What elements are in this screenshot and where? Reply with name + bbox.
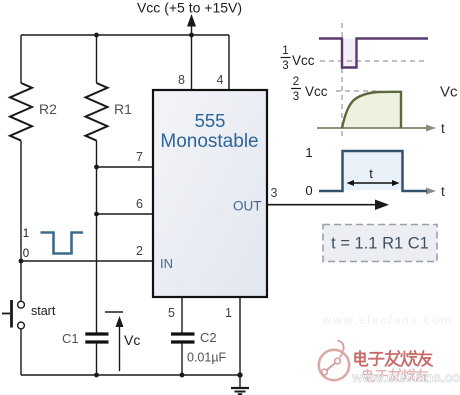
junction node C1/bottom rail	[94, 373, 99, 378]
capacitor C2	[171, 332, 195, 335]
svg-text:C1: C1	[62, 331, 79, 346]
svg-text:2: 2	[136, 244, 143, 258]
svg-text:1: 1	[305, 145, 312, 160]
watermark logo circle	[319, 341, 349, 381]
wire left rail lower	[20, 329, 22, 375]
wire pin5	[181, 297, 183, 333]
wire pin8	[191, 35, 193, 90]
junction dot top rail Vcc	[189, 33, 194, 38]
svg-text:555: 555	[195, 110, 226, 131]
dashed 2/3 Vcc level	[336, 90, 376, 92]
waveform Vc (olive) fill	[342, 92, 401, 128]
Vcc arrow	[191, 24, 193, 35]
svg-text:Vc: Vc	[440, 84, 458, 101]
wire left rail middle	[20, 141, 22, 301]
wire R1 lower	[96, 141, 98, 333]
waveform OUT axis arrow	[403, 190, 428, 192]
svg-text:2: 2	[293, 76, 299, 88]
resistor R2	[10, 83, 32, 141]
svg-text:Vcc: Vcc	[305, 84, 328, 99]
switch start	[10, 300, 13, 328]
svg-text:1: 1	[23, 228, 29, 240]
capacitor C1	[85, 332, 108, 335]
dashed vertical timing line	[341, 23, 343, 138]
wire pin6	[97, 213, 154, 215]
svg-text:0: 0	[305, 183, 312, 198]
svg-text:www.elecfans.com: www.elecfans.com	[321, 313, 453, 327]
svg-text:Vcc (+5 to +15V): Vcc (+5 to +15V)	[137, 0, 242, 16]
svg-text:8: 8	[178, 73, 185, 87]
wire pin1	[239, 297, 241, 375]
svg-text:OUT: OUT	[233, 199, 262, 214]
svg-text:Vcc: Vcc	[292, 53, 315, 68]
wire top rail	[21, 34, 229, 36]
svg-text:0.01µF: 0.01µF	[187, 351, 227, 365]
waveform OUT (blue) fill	[344, 152, 402, 190]
svg-text:start: start	[31, 304, 56, 318]
wire R1 upper	[96, 35, 98, 83]
watermark overlay 电子发烧友 small	[364, 369, 428, 381]
svg-text:R1: R1	[114, 101, 132, 117]
dashed 1/3 Vcc level	[320, 60, 428, 62]
svg-text:t: t	[441, 121, 445, 136]
wire bottom rail	[21, 374, 240, 376]
svg-text:R2: R2	[39, 101, 57, 117]
svg-text:3: 3	[271, 186, 278, 200]
trigger pulse symbol	[41, 233, 84, 254]
junction node pin6/R1	[94, 212, 99, 217]
wire pin4	[228, 35, 230, 90]
junction node pin2/left rail	[19, 259, 24, 264]
svg-text:C2: C2	[200, 330, 217, 345]
waveform trigger (purple) fill	[343, 39, 356, 68]
svg-text:3: 3	[282, 60, 288, 72]
pulse width t arrow	[350, 182, 396, 184]
waveform trigger (purple) trace	[319, 39, 428, 68]
svg-text:5: 5	[168, 306, 175, 320]
wire left rail upper	[20, 35, 22, 83]
waveform OUT (blue) trace	[319, 151, 427, 191]
resistor R1	[86, 83, 108, 141]
svg-text:IN: IN	[160, 256, 173, 271]
svg-text:Vc: Vc	[124, 332, 140, 348]
wire pin2	[21, 260, 153, 262]
ground	[239, 375, 241, 388]
junction node pin1/ground	[237, 372, 242, 377]
svg-text:1: 1	[282, 45, 288, 57]
waveform Vc axis	[317, 127, 428, 129]
svg-text:Monostable: Monostable	[160, 131, 258, 152]
watermark title 电子发烧友	[355, 351, 432, 366]
svg-text:7: 7	[136, 150, 143, 164]
svg-text:4: 4	[217, 73, 224, 87]
junction node C2/bottom rail	[180, 373, 185, 378]
svg-text:www.elecfans.com: www.elecfans.com	[351, 370, 460, 385]
junction node pin7/R1	[94, 165, 99, 170]
svg-text:t: t	[441, 184, 445, 199]
wire pin7	[97, 166, 154, 168]
svg-text:t = 1.1 R1 C1: t = 1.1 R1 C1	[331, 235, 429, 253]
svg-text:0: 0	[23, 248, 29, 260]
Vc measurement arrow	[105, 311, 123, 313]
junction dot top rail R1	[94, 33, 99, 38]
wire pin3 / OUT arrow	[267, 204, 378, 206]
formula box t = 1.1 R1 C1	[323, 225, 437, 262]
svg-text:3: 3	[293, 91, 299, 103]
svg-text:1: 1	[225, 306, 232, 320]
svg-text:t: t	[369, 166, 373, 181]
waveform Vc (olive) trace	[342, 92, 401, 128]
svg-text:6: 6	[136, 197, 143, 211]
